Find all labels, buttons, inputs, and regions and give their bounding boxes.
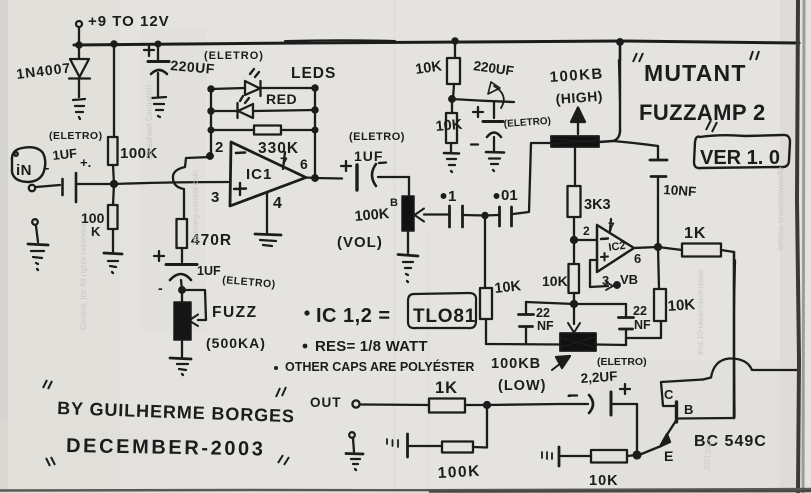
svg-text:1UF: 1UF xyxy=(197,264,221,278)
svg-text:10K: 10K xyxy=(542,273,568,289)
svg-text:TLO81: TLO81 xyxy=(413,306,476,327)
diode D1 1N4007 xyxy=(69,45,90,97)
quote marks DECEMBER xyxy=(46,455,289,466)
wire HIGH right up to rail xyxy=(599,42,621,142)
wire collector with hop over base wire xyxy=(703,358,799,379)
svg-text:LEDS: LEDS xyxy=(291,65,336,82)
svg-text:2,2UF: 2,2UF xyxy=(580,368,618,386)
ground below VOL xyxy=(398,231,418,282)
resistor R8 3K3 xyxy=(568,186,581,240)
wire HIGH wiper to 3K3 xyxy=(574,148,576,186)
svg-text:100K: 100K xyxy=(354,206,390,225)
arrow 220UF label pointer xyxy=(488,82,504,108)
svg-text:330K: 330K xyxy=(258,140,299,157)
ground below C2 (dashed) xyxy=(152,97,166,117)
svg-text:RES= 1/8 WATT: RES= 1/8 WATT xyxy=(315,338,428,355)
arrow LOW label pointer xyxy=(552,356,570,370)
resistor R14 10K xyxy=(591,450,637,463)
wire power rail xyxy=(74,38,799,47)
node out junction xyxy=(484,402,490,408)
svg-text:100KB: 100KB xyxy=(491,356,541,372)
wire input to pin3 IC1 xyxy=(114,182,228,184)
resistor R3 470R xyxy=(177,219,188,262)
wire LOW right terminal xyxy=(596,343,626,346)
ground below FUZZ xyxy=(170,358,191,375)
svg-text:6: 6 xyxy=(300,156,308,172)
svg-text:DECEMBER-2003: DECEMBER-2003 xyxy=(66,435,266,460)
LED D2 top xyxy=(211,69,315,96)
input IN terminal blob xyxy=(12,147,45,182)
ground below R6 xyxy=(444,153,459,172)
potentiometer VOL 100KB body xyxy=(402,196,414,231)
svg-text:C: C xyxy=(664,387,674,402)
faint bleedthrough texts xyxy=(79,84,785,470)
svg-text:10K: 10K xyxy=(435,117,463,135)
label RES= 1/8 WATT xyxy=(303,344,308,349)
node tone mid xyxy=(571,301,577,307)
svg-text:(LOW): (LOW) xyxy=(498,378,546,394)
svg-text:(HIGH): (HIGH) xyxy=(555,88,603,107)
wire IC2 pin3 to VB xyxy=(590,260,620,290)
svg-text:(ELETRO): (ELETRO) xyxy=(349,131,405,143)
wire pin2 feedback down with hop xyxy=(173,153,213,219)
LED box right rail xyxy=(312,85,318,180)
svg-text:1K: 1K xyxy=(684,225,706,242)
svg-text:-: - xyxy=(158,280,163,296)
quote marks BY xyxy=(43,380,286,397)
svg-text:+9 TO 12V: +9 TO 12V xyxy=(88,13,170,30)
quote marks FUZZAMP xyxy=(706,120,717,132)
svg-text:1UF: 1UF xyxy=(52,145,78,162)
svg-text:-: - xyxy=(45,160,49,175)
LED D3 bottom xyxy=(211,96,315,118)
resistor R10 1K xyxy=(682,244,734,257)
svg-text:2: 2 xyxy=(583,224,590,238)
box title right edge (paper edge line) xyxy=(797,42,799,44)
box VER 1.0 xyxy=(694,135,790,168)
potentiometer FUZZ 500KA body xyxy=(174,302,191,357)
box TL081 xyxy=(408,293,476,328)
svg-text:6: 6 xyxy=(634,251,641,266)
wire emitter junction up to 2.2UF xyxy=(636,404,638,455)
svg-text:(ELETRO): (ELETRO) xyxy=(204,50,264,62)
resistor R11 10K feedback xyxy=(654,247,666,321)
capacitor C2 220UF electro xyxy=(144,45,169,96)
resistor R4 330K horizontal xyxy=(211,126,315,135)
svg-text:Control, Inc All rights reserv: Control, Inc All rights reserved xyxy=(79,223,88,330)
wire 22NF to R11 xyxy=(626,321,661,338)
capacitor C3 1UF electro output xyxy=(341,161,409,190)
wiper arrow LOW xyxy=(568,304,580,333)
resistor R2 100K to ground xyxy=(108,184,118,252)
svg-text:-: - xyxy=(567,387,572,403)
resistor R5 10K divider top xyxy=(447,41,460,99)
capacitor C12 at 100K xyxy=(387,434,442,457)
capacitor C7 1UF electro fuzz xyxy=(154,251,197,302)
svg-text:(500KA): (500KA) xyxy=(206,335,266,351)
resistor R12 1K out xyxy=(361,399,487,413)
paper bottom edge xyxy=(0,489,811,492)
capacitor C13 at 10K xyxy=(542,447,591,466)
svg-text:lmd.10-rasanssu/russao: lmd.10-rasanssu/russao xyxy=(696,269,705,355)
svg-text:(VOL): (VOL) xyxy=(337,234,383,251)
svg-text:RED: RED xyxy=(266,91,297,107)
resistor R6 10K divider bottom xyxy=(446,99,457,152)
svg-text:IC 1,2 =: IC 1,2 = xyxy=(316,305,391,327)
potentiometer LOW 100KB body xyxy=(560,333,596,351)
svg-text:NF: NF xyxy=(634,318,651,332)
capacitor C10 22NF right xyxy=(619,304,634,345)
wiper arrow HIGH xyxy=(571,108,585,135)
label OTHER CAPS ARE POLYESTER xyxy=(274,366,278,370)
svg-text:2: 2 xyxy=(215,139,223,156)
wire pin2 to IC2 xyxy=(574,239,597,241)
svg-text:lertnso-vnomsn/www/te: lertnso-vnomsn/www/te xyxy=(776,166,785,250)
svg-text:K: K xyxy=(91,224,101,239)
svg-text:IC1: IC1 xyxy=(246,166,272,183)
svg-text:(ELETRO): (ELETRO) xyxy=(597,356,647,368)
resistor R1 100K vertical xyxy=(108,44,118,184)
svg-text:100K: 100K xyxy=(437,463,481,482)
quote marks MUTANT xyxy=(633,51,759,62)
svg-text:VER 1. 0: VER 1. 0 xyxy=(700,147,780,169)
potentiometer HIGH 100KB body xyxy=(551,136,599,147)
wire IC1 pin4 to ground xyxy=(255,192,281,246)
capacitor C8 10NF xyxy=(650,146,667,246)
label IC 1,2 = xyxy=(304,310,309,315)
svg-text:1: 1 xyxy=(448,188,456,205)
svg-text:+.: +. xyxy=(80,155,91,170)
svg-text:22: 22 xyxy=(633,304,647,318)
svg-text:B: B xyxy=(390,197,398,209)
transistor Q1 BC549C xyxy=(639,380,703,456)
wire tone mid horizontal xyxy=(526,302,626,304)
svg-text:E: E xyxy=(664,448,673,464)
wire IC2 output to 1K xyxy=(634,247,682,250)
node fuzz wiper loop xyxy=(179,287,206,326)
node emitter junction xyxy=(634,452,641,459)
svg-text:3K3: 3K3 xyxy=(584,197,611,213)
wire HIGH left to caps junction xyxy=(513,143,551,214)
node divider xyxy=(449,96,455,102)
capacitor C5 0.01 xyxy=(485,194,513,226)
node +9V terminal xyxy=(76,21,82,45)
capacitor C11 2.2UF electro xyxy=(560,384,637,415)
ground below C6 xyxy=(486,152,504,171)
capacitor C9 22NF left xyxy=(519,302,534,344)
node IC2 output xyxy=(655,244,661,250)
wire 1K to base long vertical xyxy=(734,252,736,418)
svg-text:OTHER CAPS ARE POLYÉSTER: OTHER CAPS ARE POLYÉSTER xyxy=(285,359,474,374)
capacitor C6 220UF electro xyxy=(471,102,503,151)
svg-text:FUZZ: FUZZ xyxy=(212,304,258,321)
wire divider to C6 xyxy=(452,99,514,102)
op-amp U1 IC1 triangle xyxy=(230,142,306,206)
svg-text:3: 3 xyxy=(211,189,219,206)
wire IC1 output xyxy=(306,178,342,179)
wiper arrow VOL xyxy=(415,209,447,222)
svg-text:NF: NF xyxy=(537,319,554,333)
resistor R13 100K xyxy=(442,405,487,453)
svg-text:FUZZAMP 2: FUZZAMP 2 xyxy=(639,100,766,125)
capacitor C1 1UF electro input xyxy=(63,173,115,202)
ground below OUT xyxy=(346,432,363,470)
node input jack tip xyxy=(29,185,60,191)
svg-text:MUTANT: MUTANT xyxy=(644,60,747,86)
wire C3 to VOL pot xyxy=(408,177,410,196)
resistor R7 10K tone xyxy=(480,216,492,345)
op-amp U2 IC2 triangle xyxy=(597,219,634,272)
svg-text:B: B xyxy=(684,402,693,417)
svg-text:4: 4 xyxy=(273,195,282,212)
node IC2 pin2 xyxy=(571,237,577,243)
svg-text:10K: 10K xyxy=(667,296,696,315)
svg-text:01: 01 xyxy=(501,187,518,204)
svg-text:10NF: 10NF xyxy=(663,182,697,199)
ground input jack sleeve xyxy=(28,219,48,270)
resistor R9 10K bias xyxy=(569,240,580,305)
capacitor C4 0.1 xyxy=(442,194,485,227)
wire 2.2UF to out node xyxy=(487,404,560,405)
node OUT terminal xyxy=(352,400,359,407)
LED box left rail xyxy=(208,86,213,156)
svg-text:1UF: 1UF xyxy=(354,148,383,164)
svg-text:7: 7 xyxy=(608,220,615,234)
svg-text:OUT: OUT xyxy=(310,395,342,410)
svg-text:1K: 1K xyxy=(435,379,458,397)
svg-text:Datasheet Central(R): Datasheet Central(R) xyxy=(145,84,154,160)
svg-text:iN: iN xyxy=(16,162,32,179)
svg-text:harmony-central.com: harmony-central.com xyxy=(191,170,200,245)
node caps junction xyxy=(482,213,487,218)
svg-text:(ELETRO): (ELETRO) xyxy=(49,130,103,142)
wire base horizontal xyxy=(679,417,734,420)
svg-text:VB: VB xyxy=(620,272,638,287)
ground below D1 (dashed) xyxy=(73,99,85,119)
svg-text:22: 22 xyxy=(536,306,550,320)
svg-text:IC2: IC2 xyxy=(608,240,627,254)
svg-text:7: 7 xyxy=(280,154,288,170)
node input junction xyxy=(111,181,117,187)
paper right edge xyxy=(797,0,804,493)
ground below R2 xyxy=(104,253,122,273)
svg-text:3: 3 xyxy=(602,273,609,288)
wire title box left vertical xyxy=(619,42,621,60)
wire HIGH right to 10NF xyxy=(613,141,658,146)
wire R7 bottom to LOW pot xyxy=(486,343,560,346)
svg-text:10K: 10K xyxy=(589,473,619,489)
svg-text:10K: 10K xyxy=(494,278,523,297)
